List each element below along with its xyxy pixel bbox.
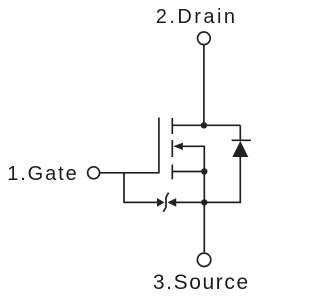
MOSFET Q1 body arrow (points left) xyxy=(173,143,183,150)
svg-text:2.Drain: 2.Drain xyxy=(156,6,238,28)
wire: body diode branch down (bottom) and back to source xyxy=(204,157,240,202)
protection diode D2 center bar (bent zener bar) xyxy=(163,193,168,212)
MOSFET Q1 channel dash 3 (source side) xyxy=(171,165,173,180)
source terminal circle xyxy=(197,253,210,266)
node: drain junction xyxy=(201,122,207,128)
MOSFET Q1 channel dash 1 (drain side) xyxy=(171,118,173,134)
wire: source vertical xyxy=(203,172,205,253)
gate terminal circle xyxy=(88,167,100,179)
svg-text:3.Source: 3.Source xyxy=(153,271,250,294)
wire: gate lead xyxy=(100,172,159,174)
body diode D1 triangle (cathode up) xyxy=(232,141,248,157)
protection diode D2 right triangle (points left) xyxy=(167,198,176,207)
wire: body diode branch down (top) xyxy=(239,125,241,140)
wire: drain vertical xyxy=(203,45,205,125)
node: protection junction xyxy=(201,199,207,205)
MOSFET Q1 channel dash 2 (body) xyxy=(171,140,173,157)
drain terminal circle xyxy=(198,32,211,45)
wire: gate branch down to protection diode xyxy=(124,173,157,203)
svg-text:1.Gate: 1.Gate xyxy=(7,163,78,185)
body diode D1 cathode bar xyxy=(232,139,251,141)
wire: source connect xyxy=(172,171,204,173)
wire: protection diode to source junction xyxy=(176,201,204,203)
node: source junction xyxy=(201,168,207,174)
protection diode D2 left triangle (points right) xyxy=(157,198,165,207)
wire: drain horizontal to MOSFET and body-diode branch xyxy=(172,124,240,126)
MOSFET Q1 gate plate xyxy=(158,118,160,174)
wire: body connection from arrow to source line xyxy=(182,146,205,171)
